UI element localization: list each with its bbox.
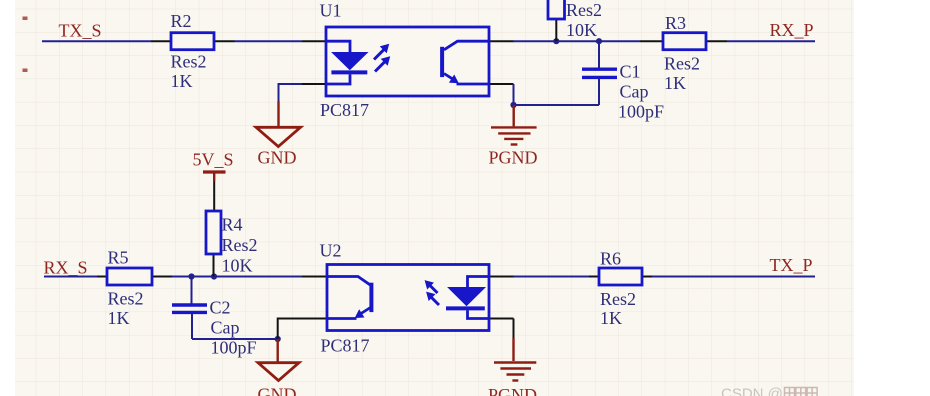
- op-amp U1 (optocoupler PC817): [302, 1, 514, 121]
- resistor R5: [97, 248, 172, 329]
- svg-text:PGND: PGND: [489, 148, 538, 168]
- LED of U1: [326, 41, 367, 84]
- svg-text:RX_P: RX_P: [770, 20, 814, 40]
- op-amp U2 (optocoupler PC817, mirrored): [302, 241, 514, 356]
- resistor R1 pull-up (Res2 10K, cut off at top): [548, 0, 602, 41]
- svg-text:PC817: PC817: [320, 100, 369, 120]
- wire: [514, 276, 590, 278]
- svg-text:5V_S: 5V_S: [193, 150, 234, 170]
- resistor R6: [589, 248, 652, 328]
- svg-text:GND: GND: [258, 385, 297, 396]
- sheet edge tick marks: [23, 17, 28, 73]
- svg-text:Cap: Cap: [620, 82, 649, 102]
- svg-text:GND: GND: [258, 148, 297, 168]
- wire: [235, 40, 303, 42]
- svg-text:PGND: PGND: [488, 385, 537, 396]
- junction: [510, 102, 516, 108]
- wire: [42, 40, 151, 42]
- junction: [553, 38, 559, 44]
- svg-text:TX_S: TX_S: [59, 21, 102, 41]
- svg-text:PC817: PC817: [321, 336, 370, 356]
- svg-text:Res2: Res2: [664, 54, 700, 74]
- power 5V_S: [193, 150, 234, 182]
- svg-text:Res2: Res2: [171, 52, 207, 72]
- power ground PGND (bottom): [488, 338, 537, 396]
- LED light arrows U2: [425, 281, 439, 305]
- svg-text:1K: 1K: [600, 308, 622, 328]
- resistor R2: [151, 11, 235, 91]
- capacitor C2: [172, 277, 257, 358]
- junction: [188, 273, 194, 279]
- svg-text:1K: 1K: [171, 71, 193, 91]
- svg-text:100pF: 100pF: [211, 338, 257, 358]
- wire: [514, 104, 600, 106]
- svg-text:R4: R4: [222, 215, 243, 235]
- svg-text:1K: 1K: [664, 73, 686, 93]
- svg-text:R2: R2: [171, 11, 192, 31]
- svg-text:Res2: Res2: [600, 289, 636, 309]
- wire: [192, 338, 278, 340]
- LED light arrows U1: [374, 45, 390, 72]
- svg-text:Res2: Res2: [566, 0, 602, 20]
- svg-text:R6: R6: [600, 248, 621, 268]
- phototransistor of U2: [327, 277, 371, 319]
- svg-text:C2: C2: [210, 298, 231, 318]
- svg-text:CSDN @: CSDN @: [721, 386, 783, 396]
- resistor R3: [640, 13, 727, 93]
- power ground PGND (top): [489, 105, 538, 168]
- wire: [278, 319, 302, 340]
- wire: [652, 276, 815, 278]
- svg-text:Res2: Res2: [222, 235, 258, 255]
- ground GND (bottom): [258, 339, 300, 396]
- LED of U2: [446, 277, 489, 319]
- wire: [172, 276, 302, 278]
- ground GND (top): [256, 101, 301, 168]
- svg-text:R3: R3: [665, 13, 686, 33]
- phototransistor of U1: [442, 41, 489, 84]
- svg-text:R5: R5: [108, 248, 129, 268]
- svg-text:TX_P: TX_P: [770, 255, 813, 275]
- svg-text:U2: U2: [320, 241, 342, 261]
- svg-text:Cap: Cap: [211, 318, 240, 338]
- wire: [514, 40, 641, 42]
- wire: [513, 84, 515, 105]
- wire: [513, 319, 515, 339]
- junction: [275, 336, 281, 342]
- svg-text:U1: U1: [320, 1, 342, 21]
- svg-text:RX_S: RX_S: [44, 258, 88, 278]
- svg-text:C1: C1: [620, 62, 641, 82]
- svg-text:10K: 10K: [566, 20, 597, 40]
- wire: [279, 84, 303, 101]
- wire: [44, 276, 97, 278]
- capacitor C1: [582, 41, 664, 121]
- svg-text:100pF: 100pF: [618, 102, 664, 122]
- svg-text:10K: 10K: [222, 256, 253, 276]
- svg-text:1K: 1K: [108, 308, 130, 328]
- junction: [211, 273, 217, 279]
- wire: [727, 40, 815, 42]
- watermark CSDN: [721, 386, 817, 396]
- svg-text:Res2: Res2: [108, 289, 144, 309]
- resistor R4: [206, 181, 258, 277]
- junction: [596, 38, 602, 44]
